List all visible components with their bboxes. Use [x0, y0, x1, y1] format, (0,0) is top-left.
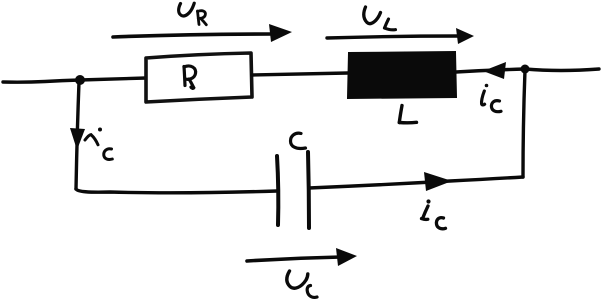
- capacitor C1 right plate: [308, 152, 309, 228]
- voltage arrow U_C head: [336, 248, 357, 266]
- current label i_c (left branch): [85, 128, 112, 160]
- wire resistor to inductor: [252, 73, 348, 75]
- wire inductor to node B: [456, 69, 525, 72]
- voltage arrow U_R shaft: [113, 34, 274, 37]
- voltage arrow U_C shaft: [247, 257, 341, 261]
- node A (left junction dot): [75, 75, 85, 85]
- voltage label U_L: [364, 7, 396, 30]
- current arrow i_c head pointing right (bottom wire): [424, 172, 452, 191]
- node B (right junction dot): [521, 65, 530, 74]
- inductor L1 body (filled block): [348, 52, 456, 98]
- wire bottom left segment to capacitor: [76, 189, 277, 193]
- capacitor label C: [291, 133, 306, 148]
- wire node A to resistor: [80, 78, 146, 80]
- wire top left segment: [3, 80, 80, 82]
- current label i_c (bottom wire): [422, 199, 446, 228]
- voltage arrow U_R head: [269, 24, 292, 42]
- resistor R1 body: [146, 53, 252, 102]
- voltage label U_R: [179, 3, 207, 25]
- inductor label L: [399, 106, 416, 123]
- wire node B to right edge: [525, 69, 599, 71]
- wire left vertical branch: [76, 82, 79, 189]
- capacitor C1 left plate: [277, 156, 278, 225]
- current label i_c (top right): [482, 84, 501, 112]
- voltage arrow U_L shaft: [327, 36, 461, 38]
- voltage label U_c: [287, 271, 317, 297]
- current arrow i_c head pointing down (left branch): [70, 128, 85, 150]
- wire right vertical branch: [523, 70, 525, 177]
- current arrow i_c head pointing left into inductor: [483, 62, 506, 79]
- wire capacitor to right corner: [309, 177, 523, 188]
- voltage arrow U_L head: [456, 28, 474, 44]
- resistor label R: [184, 66, 196, 88]
